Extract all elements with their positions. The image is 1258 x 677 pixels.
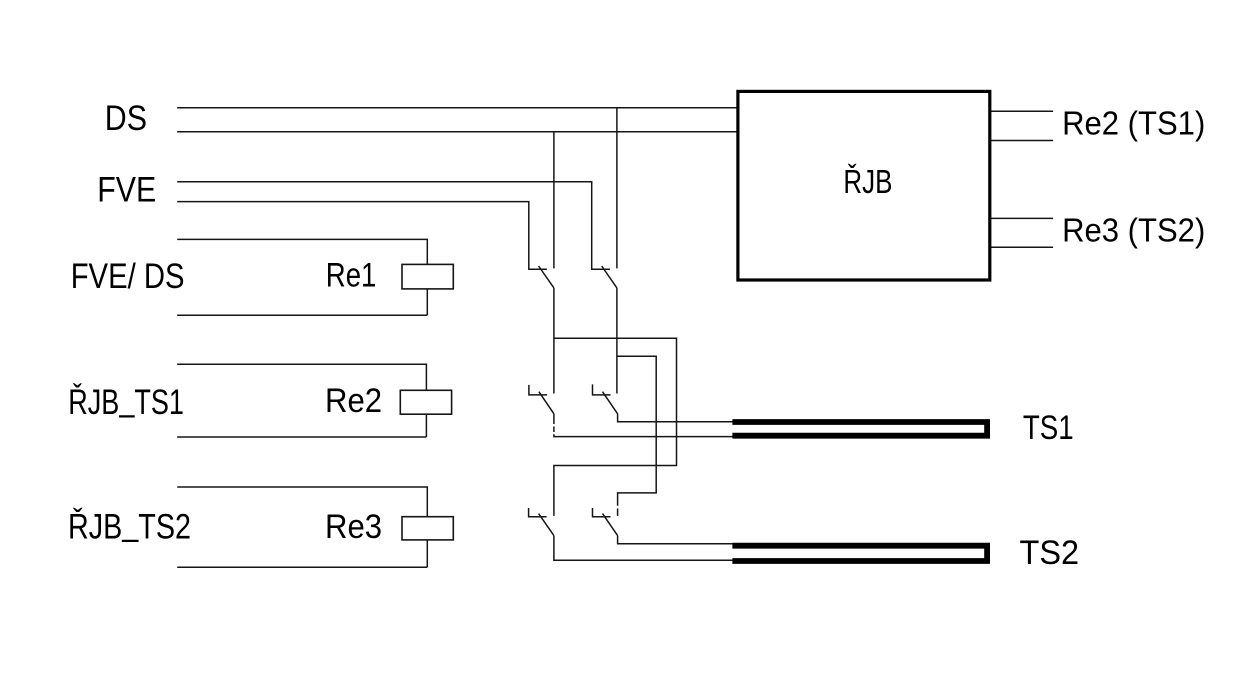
- svg-text:Re2 (TS1): Re2 (TS1): [1062, 105, 1205, 142]
- svg-text:TS2: TS2: [1020, 534, 1080, 572]
- svg-text:Re2: Re2: [325, 382, 382, 420]
- svg-text:FVE/ DS: FVE/ DS: [71, 257, 185, 296]
- svg-text:ŘJB_TS1: ŘJB_TS1: [68, 379, 184, 422]
- svg-text:ŘJB: ŘJB: [843, 163, 892, 200]
- svg-text:Re1: Re1: [326, 256, 377, 294]
- svg-text:Re3: Re3: [325, 508, 382, 546]
- svg-text:ŘJB_TS2: ŘJB_TS2: [68, 504, 191, 547]
- svg-text:TS1: TS1: [1023, 409, 1074, 447]
- svg-text:FVE: FVE: [97, 170, 156, 209]
- svg-text:Re3 (TS2): Re3 (TS2): [1062, 211, 1205, 248]
- svg-text:DS: DS: [105, 99, 147, 138]
